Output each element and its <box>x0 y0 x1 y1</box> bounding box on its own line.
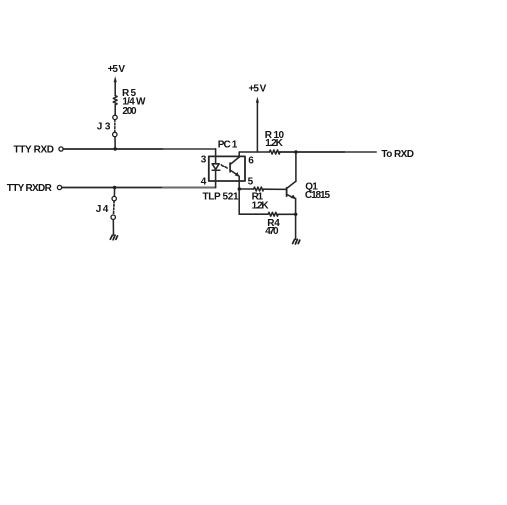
svg-text:TTY RXD: TTY RXD <box>14 145 55 156</box>
svg-text:470: 470 <box>265 226 279 237</box>
svg-text:C1815: C1815 <box>305 190 331 201</box>
svg-text:+5 V: +5 V <box>249 83 267 94</box>
svg-text:J 4: J 4 <box>96 204 109 215</box>
svg-text:6: 6 <box>248 156 254 167</box>
svg-text:+5 V: +5 V <box>108 64 126 75</box>
svg-text:1.2K: 1.2K <box>252 200 270 211</box>
svg-text:TLP 521: TLP 521 <box>203 191 239 202</box>
svg-text:5: 5 <box>248 176 254 187</box>
svg-text:3: 3 <box>201 154 207 165</box>
svg-text:200: 200 <box>122 106 137 117</box>
svg-text:1.2K: 1.2K <box>265 138 283 149</box>
svg-text:J 3: J 3 <box>97 122 111 133</box>
svg-text:4: 4 <box>201 176 207 187</box>
svg-text:TTY RXDR: TTY RXDR <box>7 183 53 194</box>
svg-text:PC 1: PC 1 <box>218 139 238 150</box>
svg-text:To RXD: To RXD <box>381 149 414 160</box>
